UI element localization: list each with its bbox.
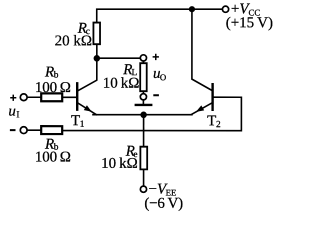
- node C junction dot: [140, 112, 147, 119]
- label plus sign output: [153, 54, 159, 60]
- terminal VEE: [140, 186, 146, 192]
- wire T1 emitter diagonal: [78, 103, 96, 114]
- label plus sign input: [10, 95, 16, 101]
- wire Re bottom to VEE terminal: [143, 169, 145, 186]
- node A junction dot: [189, 6, 195, 12]
- wire RL top link: [142, 61, 144, 63]
- svg-text:100 Ω: 100 Ω: [35, 80, 71, 96]
- wire node B to RL top terminal: [97, 57, 140, 59]
- svg-text:100 Ω: 100 Ω: [35, 150, 71, 166]
- terminal input minus: [20, 127, 27, 134]
- wire T2 collector vertical: [192, 9, 212, 90]
- resistor Rb2 box: [41, 126, 62, 134]
- terminal uO minus: [140, 94, 146, 100]
- wire T1 collector: [78, 58, 97, 90]
- label minus sign input: [10, 129, 16, 131]
- wire Rc bottom to node B: [96, 44, 98, 58]
- svg-text:20 kΩ: 20 kΩ: [55, 33, 92, 49]
- wire T1 base: [63, 96, 76, 98]
- transistor Q1 base bar: [76, 82, 78, 111]
- svg-text:(−6 V): (−6 V): [144, 196, 183, 212]
- node B junction dot: [94, 55, 101, 62]
- terminal VCC: [222, 6, 228, 12]
- svg-text:(+15 V): (+15 V): [226, 15, 273, 31]
- terminal input plus: [20, 94, 27, 101]
- wire input2 to Rb2: [27, 129, 41, 131]
- transistor Q2 emitter arrow: [196, 105, 204, 112]
- wire top rail: [97, 9, 223, 22]
- resistor Re box: [140, 147, 147, 170]
- terminal uO plus: [140, 55, 146, 61]
- resistor Rb1 box: [41, 93, 62, 101]
- resistor Rc box: [93, 23, 100, 45]
- wire ground stem: [142, 100, 144, 105]
- transistor Q1 emitter arrow: [84, 105, 92, 111]
- wire input1 to Rb1: [27, 96, 41, 98]
- wire RL bottom link: [142, 91, 144, 94]
- transistor Q2 base bar: [211, 83, 213, 111]
- wire T2 emitter diagonal: [191, 103, 211, 114]
- label minus sign output: [153, 94, 159, 96]
- wire T2 base loop to lower input: [63, 97, 241, 130]
- svg-text:10 kΩ: 10 kΩ: [103, 76, 140, 92]
- svg-text:10 kΩ: 10 kΩ: [101, 156, 138, 172]
- wire emitter rail: [93, 114, 192, 116]
- ground: [135, 104, 153, 106]
- wire node C to Re: [143, 115, 145, 147]
- resistor RL box: [140, 63, 147, 91]
